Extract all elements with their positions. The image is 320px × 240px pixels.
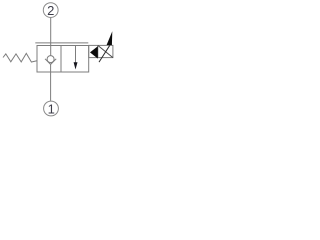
port 1 circle <box>44 101 59 116</box>
solenoid diagonal <box>98 45 113 57</box>
check valve seat <box>45 59 56 65</box>
proportional arrow shaft <box>99 45 110 62</box>
position divider <box>60 46 62 73</box>
port 2 circle <box>43 3 58 18</box>
solenoid frame <box>89 45 113 57</box>
svg-text:1: 1 <box>48 101 55 116</box>
wire port 2 to valve <box>50 18 52 56</box>
solenoid divider <box>97 45 99 57</box>
flow path arrow shaft <box>75 46 77 64</box>
solenoid triangle <box>90 46 98 58</box>
upper body line <box>35 42 88 44</box>
svg-text:2: 2 <box>47 3 54 18</box>
flow path arrowhead <box>74 62 78 69</box>
spring <box>3 53 37 62</box>
valve envelope <box>37 46 89 73</box>
proportional arrowhead <box>107 31 113 45</box>
wire seat to port 1 <box>50 64 52 101</box>
check valve ball C <box>47 56 54 63</box>
